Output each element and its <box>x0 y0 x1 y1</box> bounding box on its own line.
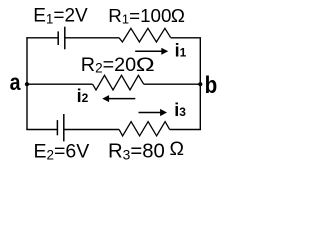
svg-text:i1: i1 <box>175 41 187 61</box>
battery E2 short plate <box>56 120 58 135</box>
wire: R2 to b <box>144 83 201 85</box>
node b junction dot <box>198 82 202 86</box>
wire: bottom-left segment to E2 <box>26 129 57 131</box>
wire: R3 to bottom-right corner <box>170 129 201 131</box>
resistor R2 zigzag <box>93 75 144 90</box>
svg-text:E1=2V: E1=2V <box>33 6 88 27</box>
current arrow i2 <box>102 95 135 102</box>
wire: right vertical b-branch <box>199 38 201 130</box>
wire: a to R2 <box>27 83 93 85</box>
wire: R1 to top-right corner <box>171 37 201 39</box>
current arrow i1 <box>135 48 168 55</box>
wire: top-left segment to E1 <box>26 37 58 39</box>
battery E2 long plate <box>63 114 65 141</box>
svg-text:b: b <box>205 71 218 98</box>
current arrow i3 <box>139 109 168 116</box>
wire: E2 to R3 <box>64 129 119 131</box>
resistor R3 zigzag <box>119 122 170 136</box>
battery E1 long plate <box>64 27 66 50</box>
svg-text:a: a <box>10 69 21 95</box>
resistor R1 zigzag <box>119 28 171 42</box>
svg-text:R1=100Ω: R1=100Ω <box>108 5 185 27</box>
svg-text:i2: i2 <box>77 86 89 106</box>
wire: E1 to R1 <box>65 37 119 39</box>
svg-text:R3=80: R3=80 <box>108 141 165 163</box>
svg-text:Ω: Ω <box>136 53 155 76</box>
node a junction dot <box>25 82 29 86</box>
battery E1 short plate <box>57 31 59 45</box>
svg-text:E2=6V: E2=6V <box>34 140 90 162</box>
svg-text:i3: i3 <box>174 100 186 120</box>
svg-text:R2=20: R2=20 <box>81 54 136 76</box>
svg-text:Ω: Ω <box>170 138 185 160</box>
wire: left vertical a-branch <box>26 38 28 130</box>
